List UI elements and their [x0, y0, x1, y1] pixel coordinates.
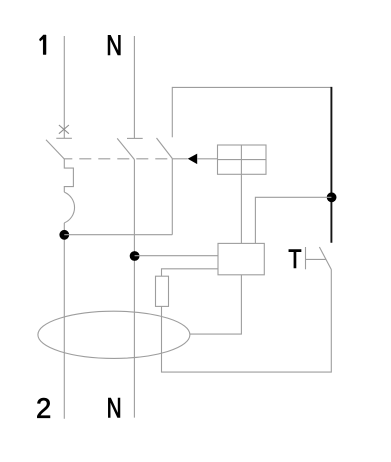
magnetic trip coil arc on pole 1 [64, 192, 74, 223]
wire relay to toroid secondary [190, 275, 242, 334]
label terminal N (top) [108, 35, 120, 55]
wire L1 lower conductor [63, 223, 65, 419]
pole N moving contact blade [117, 138, 134, 159]
label terminal N (bottom) [108, 398, 119, 417]
test switch blade [319, 247, 331, 270]
supply wire thick vertical [330, 87, 332, 243]
mechanical linkage dashed line [64, 158, 172, 160]
breaker function cross X on pole 1 [59, 125, 69, 134]
wire resistor top to relay [162, 269, 219, 276]
junction node on supply wire [327, 192, 337, 202]
label terminal 2 (bottom left) [37, 398, 50, 418]
auxiliary contact upper wire [171, 87, 173, 137]
trip linkage arrow head [188, 154, 198, 165]
relay coil box [218, 243, 264, 274]
junction node on L1 [59, 230, 69, 240]
pole 1 moving contact blade [46, 140, 64, 159]
test resistor [156, 276, 169, 306]
label terminal 1 (top left) [39, 35, 46, 55]
test button bar [305, 247, 307, 269]
wire N lower conductor [133, 160, 135, 418]
top loop wire horizontal [172, 86, 331, 88]
pole 1 fixed contact bar [56, 137, 72, 139]
auxiliary contact lower wire [171, 159, 173, 235]
pole N fixed contact bar [127, 137, 143, 139]
wire resistor bottom to test loop [162, 270, 332, 373]
wire N node to relay [135, 255, 218, 257]
auxiliary contact moving blade [157, 138, 173, 159]
wire from supply node toward relay [255, 197, 331, 243]
toroidal current transformer [38, 311, 190, 358]
wire from L1 node to auxiliary contact [64, 234, 172, 236]
thermal overload element on pole 1 [64, 159, 73, 192]
test button stem [306, 258, 327, 260]
junction node on N [130, 251, 140, 261]
wire L1 upper conductor [63, 36, 65, 138]
wire mechanism box to relay [240, 174, 242, 243]
wire N upper conductor [133, 36, 135, 138]
label T test button [289, 250, 301, 268]
breaker mechanism box [218, 145, 267, 174]
linkage line from arrow to mechanism box [172, 158, 217, 160]
